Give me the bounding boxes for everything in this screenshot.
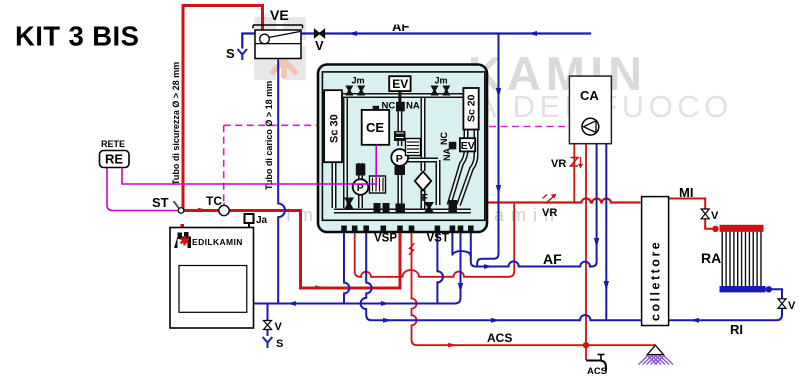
faucet red stem xyxy=(585,345,587,360)
panel port stubs xyxy=(341,226,473,232)
arrow red on ST line xyxy=(198,208,207,213)
svg-text:NA: NA xyxy=(442,148,452,161)
bottom fittings xyxy=(344,198,457,214)
valve V boiler drain xyxy=(264,321,272,330)
panel pipe center vertical xyxy=(397,111,402,211)
pipe blue port9 boiler return xyxy=(254,230,461,304)
finned block right xyxy=(406,139,421,156)
svg-text:EV: EV xyxy=(461,140,475,152)
finned block left xyxy=(370,176,386,193)
pipe blue port7 xyxy=(437,230,443,304)
strainer F diamond xyxy=(415,172,431,191)
dashed control line vertical to TC xyxy=(223,125,225,203)
solenoid EV top box xyxy=(389,76,410,91)
arrow blue down CA left blue xyxy=(594,238,599,248)
svg-text:Sc 20: Sc 20 xyxy=(466,94,478,122)
pipe blue port1 to return xyxy=(344,230,349,304)
pipe blue port8 with arc xyxy=(452,230,470,256)
panel pipe right diagonal 2 xyxy=(459,130,477,206)
svg-text:VST: VST xyxy=(427,233,449,245)
svg-text:V: V xyxy=(275,321,283,333)
panel pipe left vertical 1 xyxy=(343,98,348,208)
svg-text:V: V xyxy=(711,210,719,222)
svg-text:NA: NA xyxy=(406,101,420,112)
svg-text:Jm: Jm xyxy=(435,76,448,86)
panel pipe left pump vertical xyxy=(358,163,363,208)
junction dot red ACS xyxy=(583,342,589,348)
pump P left xyxy=(353,179,369,195)
panel pipe strainer vertical xyxy=(421,98,426,211)
panel top manifold pipe xyxy=(342,93,463,98)
svg-text:VR: VR xyxy=(551,158,566,170)
sensor node ST xyxy=(174,201,184,213)
arrow blue right on return xyxy=(381,301,390,306)
arrow blue top AF left1 xyxy=(348,31,357,36)
pipe red discharge to ACS line xyxy=(412,230,657,345)
svg-text:ST: ST xyxy=(152,195,169,210)
panel inner frame xyxy=(322,72,484,220)
arrow blue down CA right blue xyxy=(604,281,609,291)
dashed control line horizontal right to CA xyxy=(489,126,569,128)
svg-text:RA: RA xyxy=(701,250,721,266)
hydraulic panel box xyxy=(318,65,487,233)
arrow red small on discharge xyxy=(409,243,415,255)
valve V on AF line xyxy=(315,30,325,38)
svg-text:KIT 3 BIS: KIT 3 BIS xyxy=(15,21,139,52)
svg-text:V: V xyxy=(315,38,324,53)
arrow blue top AF left2 xyxy=(528,31,537,36)
svg-text:CA: CA xyxy=(580,88,599,103)
pipe blue charge line (Tubo di carico) xyxy=(278,59,285,304)
junction box Ja xyxy=(245,214,254,228)
panel bottom manifold xyxy=(334,209,471,214)
pipe blue port10 AF to CA xyxy=(471,144,597,267)
faucet ACS xyxy=(586,355,606,372)
arrow blue right on RI line 1 xyxy=(383,318,392,323)
pipe red main ST line to VSP port xyxy=(181,211,400,289)
wire magenta RE to CE xyxy=(122,145,376,184)
S funnel symbol at VE xyxy=(238,49,248,60)
dashed control line horizontal left xyxy=(224,124,317,126)
arrow blue down on AF drop 1 xyxy=(496,88,501,98)
expansion vessel VE xyxy=(253,25,303,59)
svg-text:V: V xyxy=(788,300,796,312)
arrow red on ACS line xyxy=(448,343,457,348)
node right black square xyxy=(449,142,457,150)
svg-text:S: S xyxy=(226,46,235,61)
red tick on boiler top xyxy=(181,224,185,228)
pipe red CA right drop to ACS junction xyxy=(585,144,587,346)
pump symbol in CA xyxy=(582,118,599,135)
check valve VR on CA line xyxy=(571,157,584,169)
arrow blue right on RI line 2 xyxy=(491,318,500,323)
heat exchanger Sc 30 xyxy=(324,90,342,162)
svg-text:EDILKAMIN: EDILKAMIN xyxy=(192,237,243,247)
check valve VR on supply line xyxy=(543,194,557,204)
boiler window xyxy=(179,266,247,313)
svg-text:CE: CE xyxy=(366,120,384,135)
svg-text:VR: VR xyxy=(542,207,557,219)
thermostat TC xyxy=(219,203,229,216)
svg-text:AF: AF xyxy=(543,251,562,267)
svg-text:Tubo di carico Ø > 18 mm: Tubo di carico Ø > 18 mm xyxy=(264,81,274,190)
relay RE box xyxy=(100,151,130,168)
svg-text:ACS: ACS xyxy=(487,331,512,345)
valve V on RI xyxy=(778,299,786,309)
pump P left fitting xyxy=(356,164,366,176)
EV stem xyxy=(398,91,401,102)
svg-text:RE: RE xyxy=(105,152,123,167)
svg-text:Jm: Jm xyxy=(352,76,365,86)
pipe blue top AF line xyxy=(301,32,591,34)
Jm valve glyphs xyxy=(345,86,450,96)
pipe blue AF vertical drop x498 xyxy=(477,34,498,267)
pipe blue port3 long to radiator RI xyxy=(361,230,782,320)
pump P center fittings xyxy=(394,131,406,175)
arrow blue left on RI line right xyxy=(690,318,699,323)
S funnel symbol at boiler xyxy=(263,337,273,348)
pump P center xyxy=(391,149,408,166)
svg-text:P: P xyxy=(396,153,403,165)
svg-text:RI: RI xyxy=(730,322,743,337)
watermark logo gray square xyxy=(254,17,306,80)
boiler (stove) box xyxy=(170,228,254,329)
heat exchanger Sc 20 xyxy=(463,88,478,130)
wire magenta RE to ST xyxy=(107,168,179,211)
panel pipe left vertical 2 xyxy=(332,163,337,209)
svg-text:MI: MI xyxy=(679,185,693,200)
clip rect for AF top label xyxy=(386,16,414,25)
svg-text:NC: NC xyxy=(439,132,449,145)
arrow blue left on return xyxy=(287,301,296,306)
arrow red on lower red line xyxy=(315,285,324,290)
svg-text:TC: TC xyxy=(206,194,222,208)
panel pipe right diagonal 1 xyxy=(449,130,466,206)
watermark pink star xyxy=(271,43,297,78)
pipe red safety (Tubo di sicurezza) xyxy=(183,6,263,211)
pipe red MI from collettore to radiator xyxy=(669,199,713,229)
boiler CA box xyxy=(569,76,611,144)
panel pipe cross horizontal xyxy=(406,160,438,205)
svg-text:RETE: RETE xyxy=(101,139,125,149)
valve V on MI xyxy=(701,209,709,219)
pipe blue boiler drain V S xyxy=(267,304,269,337)
arrow blue right on AF mid xyxy=(484,264,493,269)
CE top stub xyxy=(373,106,380,110)
collettore box xyxy=(642,197,669,326)
arrow blue down on AF drop 2 xyxy=(496,185,501,195)
svg-text:VSP: VSP xyxy=(374,233,397,245)
node NC NA black square xyxy=(396,102,405,112)
svg-text:ACS: ACS xyxy=(587,366,607,377)
svg-text:Sc 30: Sc 30 xyxy=(329,114,341,143)
pipe red CA left drop with VR xyxy=(573,144,575,203)
svg-text:VE: VE xyxy=(270,7,289,23)
arrow blue down port9 xyxy=(458,283,463,293)
svg-text:Tubo di sicurezza Ø > 28 mm: Tubo di sicurezza Ø > 28 mm xyxy=(171,62,181,185)
svg-text:S: S xyxy=(276,338,283,350)
pipe blue CA right drop xyxy=(605,144,607,321)
radiator RA xyxy=(712,225,772,293)
pipe red from VSP port2 to riser x514 xyxy=(355,203,515,277)
svg-text:EV: EV xyxy=(392,77,408,91)
svg-text:collettore: collettore xyxy=(649,240,663,321)
pipe red collettore supply xyxy=(486,198,641,202)
svg-text:Ja: Ja xyxy=(256,215,268,226)
drain symbol xyxy=(639,345,674,364)
electronics CE box xyxy=(362,110,390,145)
pipe blue S branch at VE xyxy=(242,34,255,49)
solenoid EV right box xyxy=(460,138,475,151)
boiler logo edilkamin xyxy=(174,232,243,248)
